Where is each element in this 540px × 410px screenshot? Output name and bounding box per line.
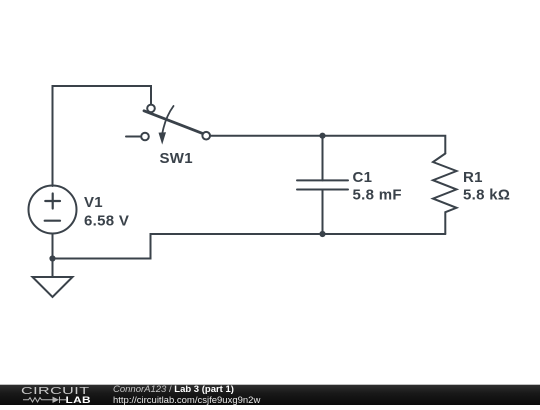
ground: [33, 259, 73, 298]
svg-text:5.8 kΩ: 5.8 kΩ: [463, 187, 510, 204]
wire: SW1 output to top-right corner down to R1: [211, 136, 445, 154]
footer url text: [113, 395, 260, 406]
capacitor C1: [297, 136, 402, 234]
svg-text:5.8 mF: 5.8 mF: [353, 187, 402, 204]
node A: top junction: [319, 133, 325, 139]
svg-text:C1: C1: [353, 169, 373, 186]
node B: bottom junction: [319, 231, 325, 237]
svg-text:6.58 V: 6.58 V: [84, 212, 129, 229]
CircuitLab logo: [0, 384, 110, 405]
resistor R1: [433, 154, 510, 235]
wire: V1 bottom lead: [52, 234, 54, 259]
footer bar: [0, 384, 540, 405]
svg-text:SW1: SW1: [160, 150, 193, 167]
svg-text:LAB: LAB: [66, 395, 92, 405]
wire: V1 top lead up and over to SW1: [53, 86, 152, 186]
wire: bottom rail from R1 back to V1 node: [53, 234, 446, 259]
node C: V1 bottom junction: [49, 255, 55, 261]
svg-text:V1: V1: [84, 194, 103, 211]
footer title text: [113, 384, 234, 395]
switch SW1: [126, 105, 210, 167]
svg-text:R1: R1: [463, 169, 483, 186]
voltage source V1: [29, 186, 130, 234]
